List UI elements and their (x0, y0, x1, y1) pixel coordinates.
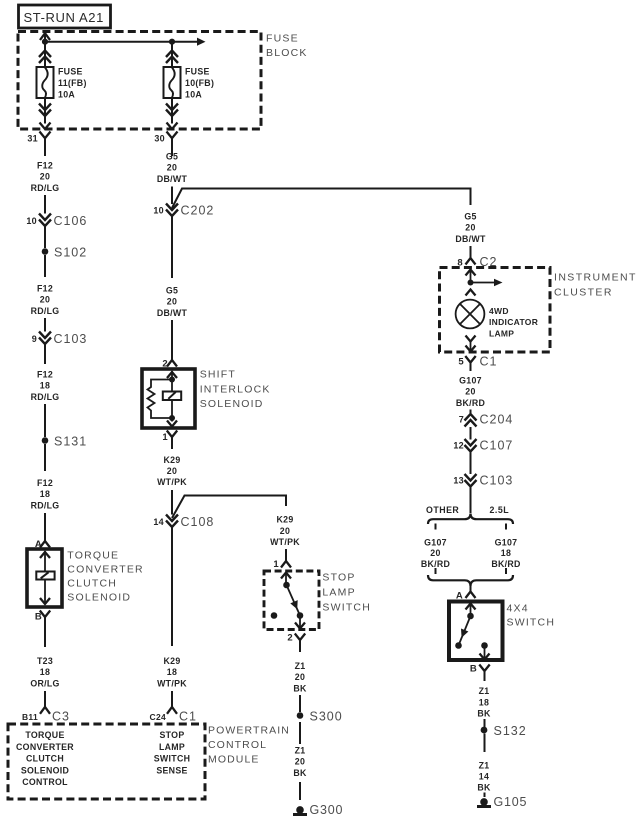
svg-text:5: 5 (458, 357, 464, 368)
svg-text:20: 20 (295, 672, 305, 682)
svg-text:BK: BK (293, 683, 307, 693)
svg-text:G105: G105 (494, 795, 528, 809)
svg-text:20: 20 (40, 295, 50, 305)
svg-text:2: 2 (287, 633, 293, 644)
svg-text:Z1: Z1 (479, 760, 490, 770)
svg-text:18: 18 (40, 667, 50, 677)
svg-text:B: B (470, 664, 477, 675)
svg-text:FUSE: FUSE (185, 67, 210, 77)
svg-text:B11: B11 (22, 712, 38, 722)
svg-text:C24: C24 (150, 712, 167, 722)
svg-text:BLOCK: BLOCK (266, 47, 308, 59)
svg-text:Z1: Z1 (479, 686, 490, 696)
svg-text:G107: G107 (495, 537, 518, 547)
svg-text:MODULE: MODULE (208, 753, 260, 765)
svg-text:RD/LG: RD/LG (31, 306, 60, 316)
svg-text:20: 20 (465, 223, 475, 233)
svg-text:CLUSTER: CLUSTER (554, 286, 613, 298)
svg-text:10A: 10A (185, 90, 202, 100)
svg-text:20: 20 (40, 172, 50, 182)
svg-text:12: 12 (453, 441, 464, 451)
svg-text:4WD: 4WD (489, 306, 509, 316)
svg-text:14: 14 (479, 772, 489, 782)
svg-text:SOLENOID: SOLENOID (21, 765, 69, 775)
svg-text:INDICATOR: INDICATOR (489, 317, 538, 327)
svg-text:T23: T23 (37, 656, 53, 666)
svg-text:DB/WT: DB/WT (157, 174, 188, 184)
svg-text:31: 31 (27, 134, 38, 144)
svg-text:10(FB): 10(FB) (185, 78, 214, 88)
svg-text:18: 18 (167, 667, 177, 677)
svg-text:C1: C1 (179, 710, 197, 724)
svg-text:Z1: Z1 (295, 661, 306, 671)
svg-text:F12: F12 (37, 161, 53, 171)
svg-text:30: 30 (154, 134, 165, 144)
svg-text:SWITCH: SWITCH (154, 754, 191, 764)
svg-text:SWITCH: SWITCH (322, 602, 371, 614)
svg-text:F12: F12 (37, 284, 53, 294)
svg-text:S300: S300 (310, 710, 343, 724)
svg-text:SHIFT: SHIFT (200, 369, 236, 381)
svg-text:C108: C108 (181, 515, 215, 529)
svg-text:G300: G300 (310, 803, 344, 817)
svg-text:1: 1 (162, 432, 168, 443)
svg-text:BK: BK (477, 709, 491, 719)
svg-text:G5: G5 (166, 286, 178, 296)
svg-text:9: 9 (32, 334, 37, 344)
svg-text:CONVERTER: CONVERTER (67, 564, 144, 576)
svg-text:INTERLOCK: INTERLOCK (200, 383, 271, 395)
svg-text:SENSE: SENSE (156, 765, 187, 775)
svg-text:C1: C1 (480, 355, 498, 369)
svg-text:LAMP: LAMP (322, 587, 355, 599)
svg-text:C103: C103 (480, 474, 514, 488)
svg-text:WT/PK: WT/PK (157, 477, 187, 487)
svg-text:FUSE: FUSE (58, 67, 83, 77)
svg-text:F12: F12 (37, 478, 53, 488)
svg-text:13: 13 (453, 476, 464, 486)
svg-text:FUSE: FUSE (266, 33, 299, 45)
svg-text:WT/PK: WT/PK (157, 678, 187, 688)
svg-text:1: 1 (273, 559, 279, 570)
svg-text:BK: BK (293, 768, 307, 778)
svg-text:BK/RD: BK/RD (421, 559, 450, 569)
svg-text:DB/WT: DB/WT (455, 234, 486, 244)
svg-text:18: 18 (501, 548, 511, 558)
svg-text:BK/RD: BK/RD (491, 559, 520, 569)
svg-text:CONTROL: CONTROL (22, 777, 68, 787)
svg-text:S102: S102 (54, 246, 87, 260)
svg-text:INSTRUMENT: INSTRUMENT (554, 271, 637, 283)
svg-text:S132: S132 (494, 724, 527, 738)
svg-text:20: 20 (295, 757, 305, 767)
svg-text:20: 20 (465, 387, 475, 397)
svg-text:C103: C103 (54, 332, 88, 346)
svg-text:K29: K29 (163, 656, 180, 666)
svg-text:RD/LG: RD/LG (31, 183, 60, 193)
svg-text:CLUTCH: CLUTCH (26, 754, 64, 764)
svg-text:S131: S131 (54, 435, 87, 449)
svg-text:G5: G5 (464, 212, 476, 222)
svg-text:RD/LG: RD/LG (31, 392, 60, 402)
svg-text:7: 7 (459, 415, 464, 425)
svg-text:LAMP: LAMP (489, 328, 514, 338)
svg-text:POWERTRAIN: POWERTRAIN (208, 725, 290, 737)
svg-text:G107: G107 (424, 537, 447, 547)
svg-text:20: 20 (167, 163, 177, 173)
svg-text:20: 20 (167, 297, 177, 307)
svg-text:11(FB): 11(FB) (58, 78, 87, 88)
svg-text:2.5L: 2.5L (490, 505, 510, 515)
svg-text:OR/LG: OR/LG (30, 678, 59, 688)
svg-text:20: 20 (430, 548, 440, 558)
svg-text:G107: G107 (459, 375, 482, 385)
svg-text:WT/PK: WT/PK (270, 537, 300, 547)
svg-text:CONVERTER: CONVERTER (16, 742, 74, 752)
svg-text:18: 18 (40, 381, 50, 391)
svg-text:SOLENOID: SOLENOID (200, 398, 264, 410)
svg-text:F12: F12 (37, 370, 53, 380)
svg-text:LAMP: LAMP (159, 742, 185, 752)
svg-text:C204: C204 (480, 413, 514, 427)
svg-text:DB/WT: DB/WT (157, 308, 188, 318)
svg-text:BK: BK (477, 783, 491, 793)
svg-text:K29: K29 (276, 515, 293, 525)
svg-text:20: 20 (167, 466, 177, 476)
svg-text:SWITCH: SWITCH (507, 617, 556, 629)
svg-text:10: 10 (26, 216, 37, 226)
svg-text:18: 18 (479, 697, 489, 707)
svg-text:TORQUE: TORQUE (67, 550, 119, 562)
svg-text:G5: G5 (166, 152, 178, 162)
svg-text:4X4: 4X4 (507, 603, 529, 615)
svg-text:TORQUE: TORQUE (25, 730, 64, 740)
svg-text:C202: C202 (181, 204, 215, 218)
svg-text:C106: C106 (54, 214, 88, 228)
svg-text:14: 14 (153, 517, 164, 527)
svg-text:10A: 10A (58, 90, 75, 100)
svg-text:Z1: Z1 (295, 746, 306, 756)
svg-text:C107: C107 (480, 439, 514, 453)
svg-text:OTHER: OTHER (426, 505, 459, 515)
svg-text:RD/LG: RD/LG (31, 500, 60, 510)
svg-text:CLUTCH: CLUTCH (67, 578, 117, 590)
svg-text:10: 10 (153, 206, 164, 216)
svg-text:CONTROL: CONTROL (208, 739, 267, 751)
svg-text:BK/RD: BK/RD (456, 398, 485, 408)
svg-text:STOP: STOP (322, 572, 355, 584)
svg-text:K29: K29 (163, 455, 180, 465)
svg-text:18: 18 (40, 489, 50, 499)
svg-text:ST-RUN A21: ST-RUN A21 (24, 10, 104, 25)
svg-text:SOLENOID: SOLENOID (67, 592, 131, 604)
svg-text:C3: C3 (52, 710, 70, 724)
svg-text:20: 20 (280, 526, 290, 536)
svg-text:STOP: STOP (160, 730, 185, 740)
